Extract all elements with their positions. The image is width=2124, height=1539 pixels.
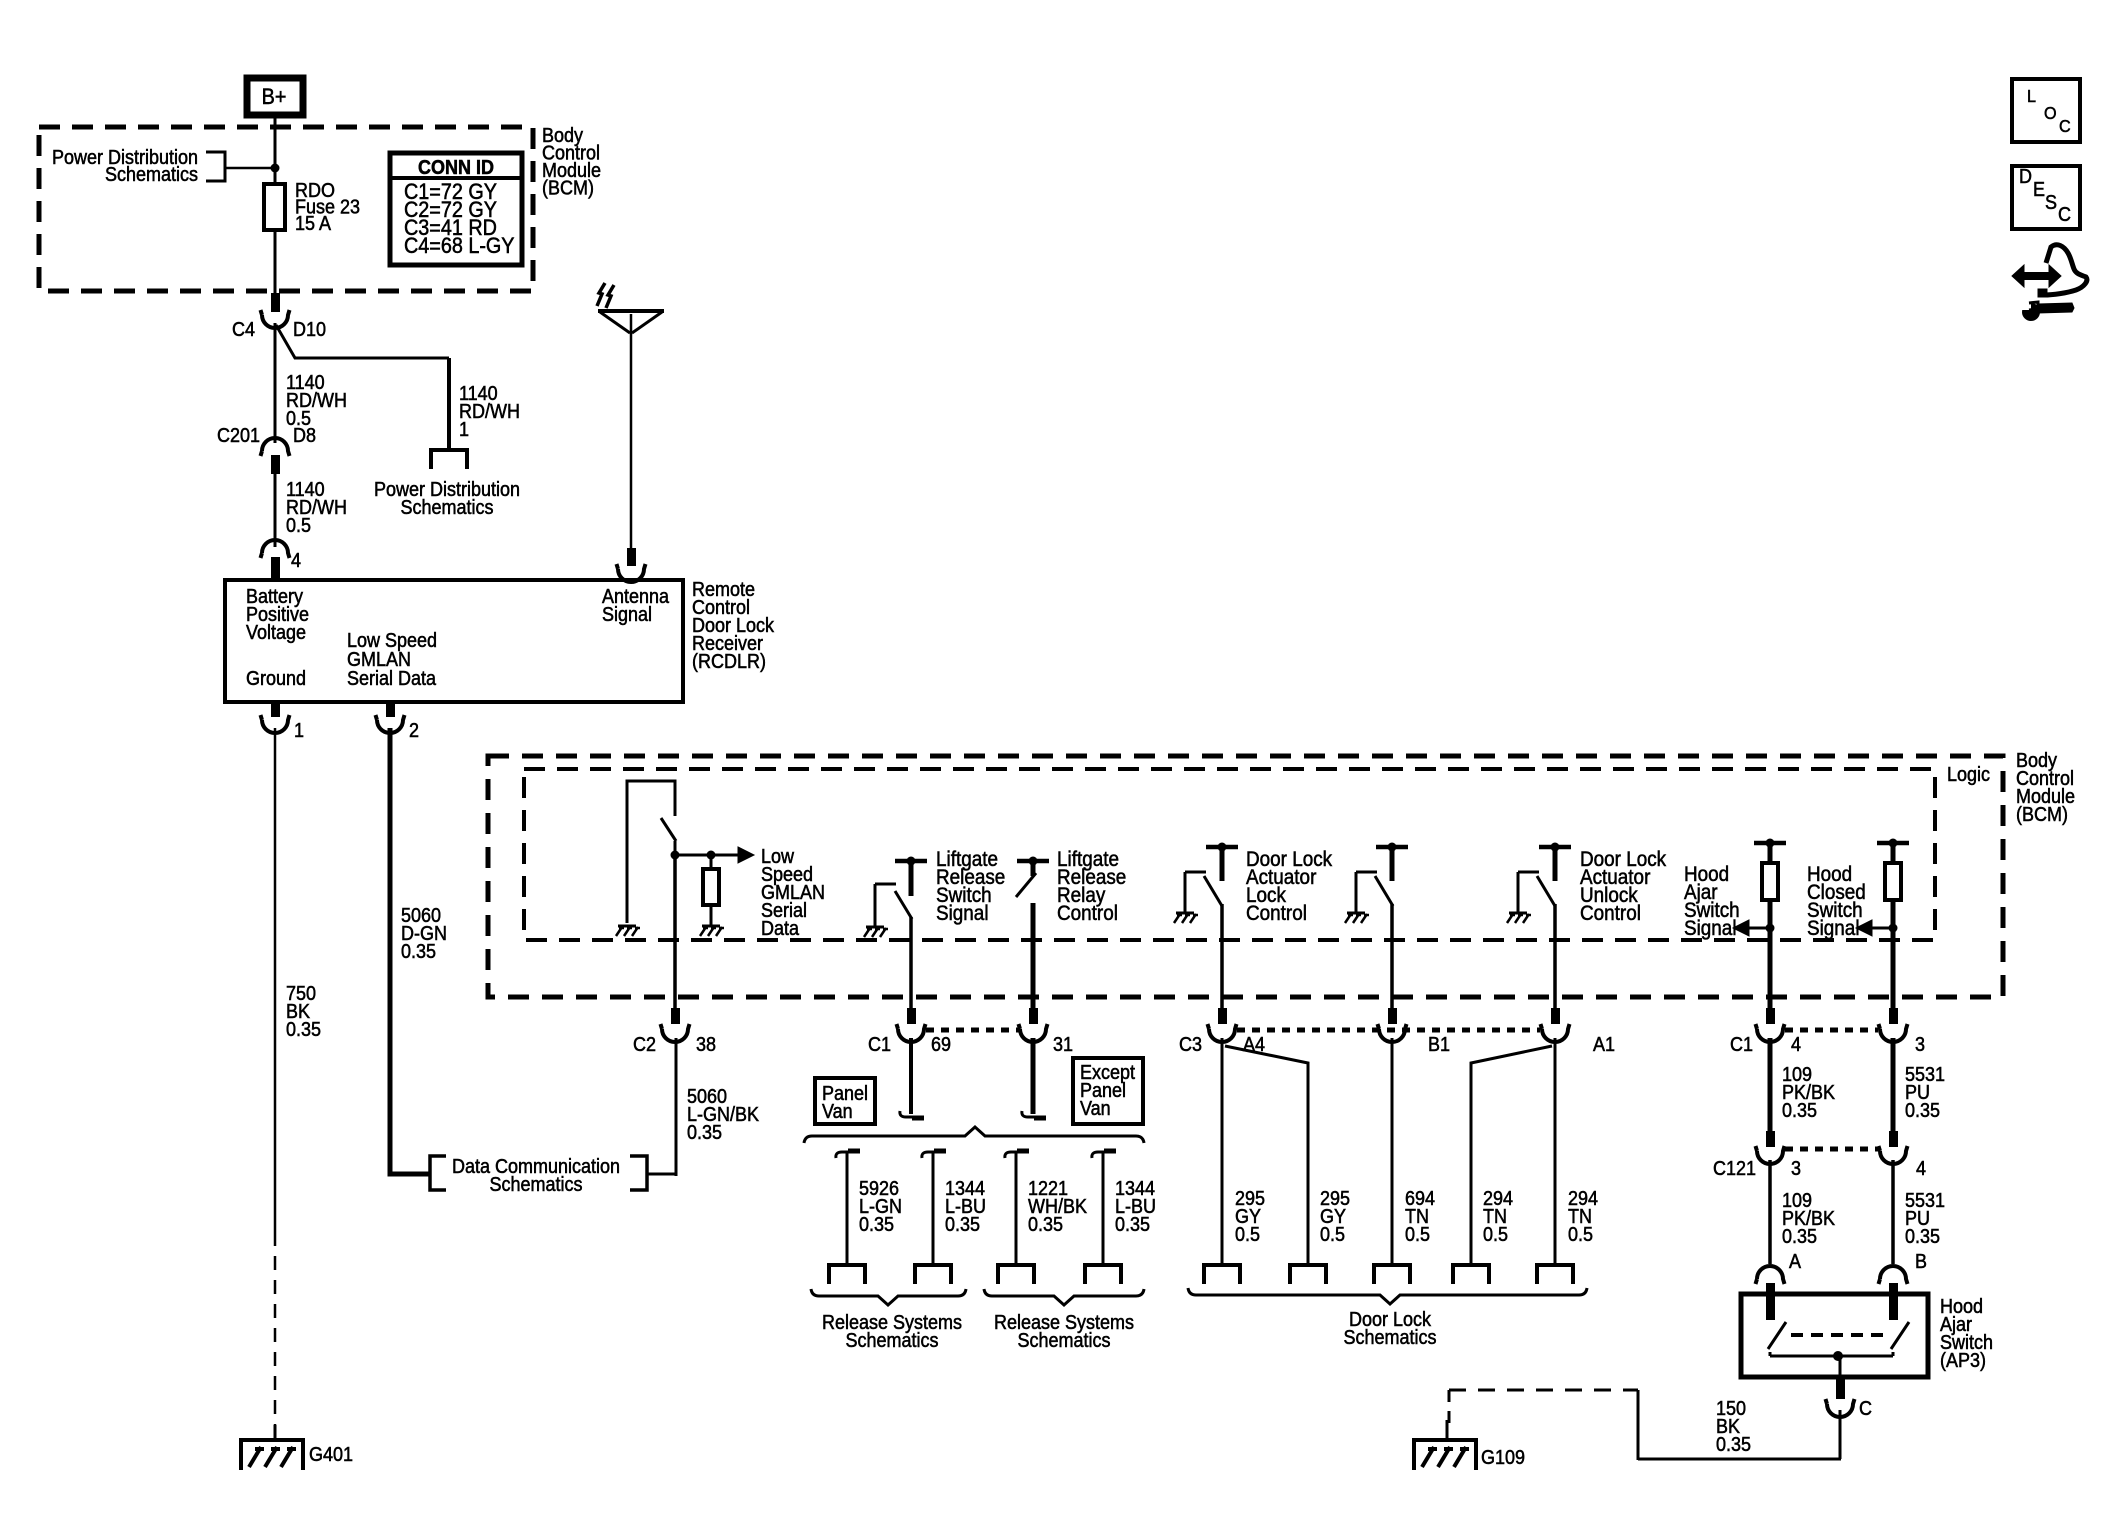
wire 5531 PU 0.35 (upper) [1891, 1038, 1896, 1134]
wire 1221 WH/BK 0.35 [1015, 1153, 1018, 1265]
svg-text:31: 31 [1053, 1034, 1073, 1056]
wire 5060 D-GN 0.35 (pin 2 to data bracket) [390, 728, 429, 1174]
resistor hood closed pull-up [1877, 841, 1909, 846]
junction node on B+ feed [271, 164, 280, 173]
antenna radio waves [597, 283, 605, 306]
arrow hood closed switch signal [1863, 927, 1893, 930]
svg-text:69: 69 [931, 1034, 951, 1056]
svg-text:Schematics: Schematics [1018, 1330, 1111, 1352]
connector C3 pin A4 [1218, 1008, 1227, 1024]
terminal box door wire 3 [1374, 1265, 1410, 1284]
terminal box release wire 4 [1085, 1265, 1121, 1284]
svg-text:C: C [1859, 1398, 1872, 1420]
wire C2-38 drop [673, 855, 677, 1010]
svg-text:Voltage: Voltage [246, 622, 306, 644]
terminal box release wire 2 [915, 1265, 951, 1284]
node hood ajar tap [1766, 924, 1775, 933]
wire 1140 RD/WH 0.5 (C201 to RCDLR) [274, 474, 277, 547]
wire liftgate release switch signal drop [909, 917, 913, 1010]
connector C2 pin 38 [671, 1008, 680, 1024]
svg-text:Schematics: Schematics [846, 1330, 939, 1352]
svg-text:4: 4 [291, 550, 301, 572]
svg-text:0.35: 0.35 [1028, 1214, 1063, 1236]
svg-text:0.35: 0.35 [286, 1019, 321, 1041]
svg-text:0.35: 0.35 [1905, 1226, 1940, 1248]
box Panel Van [815, 1078, 875, 1124]
svg-text:Signal: Signal [936, 902, 989, 925]
reference Data Communication Schematics [430, 1156, 446, 1190]
connector RCDLR pin 1 [271, 702, 280, 717]
wire 1140 RD/WH 0.5 (C4 to C201) [274, 323, 277, 443]
connector hood ajar switch pin A [1756, 1266, 1785, 1284]
antenna [598, 309, 664, 313]
svg-text:L: L [2027, 86, 2036, 106]
terminal start release wire 3 [1005, 1152, 1029, 1158]
terminal start release wire 1 [836, 1152, 860, 1158]
switch door lock actuator unlock driver [1539, 845, 1571, 850]
resistor hood ajar pull-up [1754, 841, 1786, 846]
connector C1 pin 4 (hood) [1766, 1008, 1775, 1024]
ground (GMLAN resistor) [702, 925, 720, 928]
svg-text:38: 38 [696, 1034, 716, 1056]
svg-text:CONN ID: CONN ID [418, 157, 494, 179]
switch hood ajar switch (AP3) box [1741, 1294, 1928, 1377]
svg-text:C4: C4 [232, 319, 255, 341]
svg-text:G109: G109 [1481, 1447, 1525, 1469]
switch door lock actuator lock driver [1206, 845, 1238, 850]
connector hood ajar switch pin B [1879, 1266, 1908, 1284]
wire B1 drop [1390, 904, 1394, 1010]
svg-text:0.5: 0.5 [1405, 1224, 1430, 1246]
svg-text:0.5: 0.5 [286, 515, 311, 537]
wire fuse to connector C4 [274, 230, 277, 295]
switch blade door lock [1204, 876, 1222, 906]
connector pin B1 [1388, 1008, 1397, 1024]
wire 694 TN 0.5 [1391, 1038, 1394, 1265]
ground (door lock driver) [1176, 912, 1194, 915]
svg-text:B+: B+ [262, 85, 287, 109]
dotted link connectors 4-3 [1785, 1028, 1878, 1033]
terminal box release wire 3 [998, 1265, 1034, 1284]
svg-text:0.35: 0.35 [945, 1214, 980, 1236]
connector antenna signal [627, 548, 636, 566]
svg-text:4: 4 [1791, 1034, 1801, 1056]
svg-text:0.5: 0.5 [1483, 1224, 1508, 1246]
switch blade liftgate release [895, 891, 912, 919]
wire 1344 L-BU 0.35 (except panel van) [1102, 1153, 1105, 1265]
svg-text:3: 3 [1915, 1034, 1925, 1056]
connector RCDLR pin 2 [386, 702, 395, 717]
ground G109 [1446, 1420, 1449, 1440]
svg-text:0.5: 0.5 [1235, 1224, 1260, 1246]
svg-text:O: O [2044, 103, 2057, 123]
reference Power Distribution Schematics (arrow bracket) [206, 152, 225, 181]
svg-text:Schematics: Schematics [1344, 1327, 1437, 1349]
ground (B1 driver) [1347, 912, 1365, 915]
icon navigation arrow and wrench [2022, 272, 2051, 280]
wire B+ to fuse [274, 115, 277, 184]
wire bracket to node [225, 167, 275, 170]
connector pin 3 (hood) [1889, 1008, 1898, 1024]
dotted link connectors 69-31 [926, 1028, 1019, 1033]
wire 295 GY 0.5 (lock straight) [1221, 1038, 1224, 1265]
terminal start release wire 4 [1092, 1152, 1116, 1158]
svg-text:C3: C3 [1179, 1034, 1202, 1056]
svg-text:Ground: Ground [246, 668, 306, 690]
ground (unlock driver) [1509, 912, 1527, 915]
brace release systems schematics right [984, 1289, 1144, 1305]
wire 1344 L-BU 0.35 (panel van) [932, 1153, 935, 1265]
table CONN ID [390, 153, 522, 265]
terminal box door wire 5 [1537, 1265, 1573, 1284]
svg-text:C2: C2 [633, 1034, 656, 1056]
arrow Low Speed GMLAN Serial Data [738, 847, 754, 863]
svg-text:C: C [2059, 116, 2071, 136]
svg-text:Control: Control [1057, 902, 1118, 925]
dotted link connector C121 [1785, 1147, 1878, 1152]
dashed box Logic [524, 769, 1935, 940]
svg-text:15 A: 15 A [295, 213, 331, 235]
svg-text:1: 1 [459, 419, 469, 441]
wire 294 TN 0.5 (branch) [1471, 1046, 1552, 1265]
ground G401 [274, 1425, 277, 1440]
svg-text:0.35: 0.35 [401, 941, 436, 963]
resistor GMLAN termination [710, 855, 713, 869]
module RCDLR box [225, 580, 683, 702]
svg-text:Serial Data: Serial Data [347, 668, 436, 690]
ground (GMLAN branch) [618, 925, 636, 928]
switch blade hood ajar A [1768, 1322, 1786, 1349]
wire 295 GY 0.5 (lock branch) [1225, 1046, 1308, 1265]
svg-text:0.35: 0.35 [1716, 1434, 1751, 1456]
wire 150 BK 0.35 to G109 [1839, 1410, 1842, 1459]
svg-text:Signal: Signal [1684, 917, 1737, 940]
svg-text:C121: C121 [1713, 1158, 1756, 1180]
arrow hood ajar switch signal [1740, 927, 1770, 930]
connector C4 pin D10 [271, 293, 280, 312]
wire 5926 L-GN 0.35 [846, 1153, 849, 1265]
svg-text:0.5: 0.5 [1568, 1224, 1593, 1246]
svg-text:A: A [1789, 1251, 1801, 1273]
switch door lock driver B1 [1376, 845, 1408, 850]
svg-text:Van: Van [1080, 1098, 1111, 1120]
switch blade hood ajar B [1891, 1322, 1909, 1349]
svg-text:(BCM): (BCM) [542, 178, 594, 200]
node resistor tap [707, 851, 716, 860]
svg-text:C: C [2058, 204, 2071, 226]
connector pin 31 [1029, 1008, 1038, 1024]
icon LOC box [2012, 79, 2080, 142]
dashed box Body Control Module (BCM) [488, 756, 2003, 997]
wire liftgate release relay control drop [1031, 903, 1036, 1010]
svg-text:(AP3): (AP3) [1940, 1350, 1986, 1372]
svg-text:3: 3 [1791, 1158, 1801, 1180]
brace door lock schematics [1188, 1288, 1587, 1304]
icon DESC box [2012, 166, 2080, 229]
switch liftgate release relay driver [1017, 859, 1049, 864]
terminal to Power Distribution Schematics [431, 450, 467, 469]
wire unlock control drop [1553, 904, 1557, 1010]
node hood switch common junction [1833, 1351, 1843, 1361]
connector C121 pin 4 [1889, 1131, 1898, 1147]
svg-text:Signal: Signal [1807, 917, 1860, 940]
brace release systems split [804, 1127, 1144, 1143]
svg-text:0.35: 0.35 [1782, 1226, 1817, 1248]
connector hood ajar switch pin C [1836, 1377, 1845, 1399]
wire 109 PK/BK 0.35 (lower) [1768, 1160, 1772, 1264]
svg-text:C4=68 L-GY: C4=68 L-GY [404, 234, 515, 258]
svg-text:C201: C201 [217, 425, 260, 447]
wire 5060 L-GN/BK 0.35 (data bracket to C2) [647, 1173, 676, 1176]
svg-text:Control: Control [1580, 902, 1641, 925]
svg-text:Van: Van [822, 1101, 853, 1123]
svg-text:Signal: Signal [602, 604, 652, 626]
terminal end (except panel van side) [1022, 1111, 1046, 1117]
wire GMLAN serial data tap [675, 854, 741, 857]
svg-text:Schematics: Schematics [401, 497, 494, 519]
svg-text:(RCDLR): (RCDLR) [692, 651, 766, 673]
wire 5531 PU 0.35 (lower) [1891, 1160, 1895, 1264]
svg-text:G401: G401 [309, 1444, 353, 1466]
svg-text:0.35: 0.35 [1905, 1100, 1940, 1122]
svg-text:S: S [2045, 192, 2057, 214]
terminal end (panel van side) [900, 1111, 924, 1117]
svg-text:Schematics: Schematics [105, 164, 198, 186]
svg-text:D8: D8 [293, 425, 316, 447]
node hood closed tap [1889, 924, 1898, 933]
connector RCDLR pin 4 [261, 540, 290, 558]
svg-text:0.35: 0.35 [1782, 1100, 1817, 1122]
svg-text:0.35: 0.35 [859, 1214, 894, 1236]
terminal box door wire 1 [1204, 1265, 1240, 1284]
brace release systems schematics left [811, 1289, 966, 1305]
svg-text:4: 4 [1916, 1158, 1926, 1180]
wire 69 stub to terminal [909, 1038, 913, 1114]
connector pin A1 [1551, 1008, 1560, 1024]
switch blade B1 [1375, 876, 1393, 906]
terminal box release wire 1 [829, 1265, 865, 1284]
connector C121 pin 3 [1766, 1131, 1775, 1147]
ground (liftgate release switch) [866, 926, 884, 929]
svg-text:0.35: 0.35 [687, 1122, 722, 1144]
mechanical link (dashed) [1791, 1333, 1885, 1337]
terminal start release wire 2 [922, 1152, 946, 1158]
svg-text:E: E [2033, 179, 2045, 201]
svg-text:(BCM): (BCM) [2016, 804, 2068, 826]
svg-text:1: 1 [294, 720, 304, 742]
switch liftgate release switch sense [895, 859, 927, 864]
dotted link connectors A4-B1-A1 [1237, 1028, 1540, 1033]
svg-text:D: D [2019, 166, 2032, 188]
svg-text:Control: Control [1246, 902, 1307, 925]
svg-text:Data: Data [761, 918, 799, 940]
terminal box door wire 2 [1290, 1265, 1326, 1284]
wire GMLAN driver pull-up branch [627, 781, 675, 923]
svg-text:0.5: 0.5 [1320, 1224, 1345, 1246]
fuse RDO Fuse 23 15 A [264, 184, 285, 230]
wire door lock control drop [1220, 904, 1224, 1010]
wire 109 PK/BK 0.35 (upper) [1768, 1038, 1773, 1134]
connector C201 pin D8 [261, 438, 290, 456]
svg-text:D10: D10 [293, 319, 326, 341]
svg-text:2: 2 [409, 720, 419, 742]
svg-text:C1: C1 [1730, 1034, 1753, 1056]
switch blade unlock [1537, 876, 1555, 906]
power symbol B+ [247, 78, 303, 115]
box Except Panel Van [1073, 1058, 1143, 1124]
svg-text:C1: C1 [868, 1034, 891, 1056]
wire hood switch common [1769, 1352, 1772, 1356]
node GMLAN output junction [671, 851, 680, 860]
wire 1140 RD/WH 1 branch to power distribution [276, 325, 449, 358]
wire 750 BK 0.35 to G401 [274, 728, 277, 1232]
terminal box door wire 4 [1453, 1265, 1489, 1284]
connector C1 pin 69 [907, 1008, 916, 1024]
dashed box BCM power-distribution section [39, 127, 533, 291]
svg-text:Schematics: Schematics [490, 1174, 583, 1196]
svg-text:B1: B1 [1428, 1034, 1450, 1056]
wire 294 TN 0.5 (straight) [1554, 1038, 1557, 1265]
svg-text:0.35: 0.35 [1115, 1214, 1150, 1236]
svg-text:A1: A1 [1593, 1034, 1615, 1056]
switch GMLAN driver [661, 818, 676, 841]
wire 31 stub to terminal [1031, 1038, 1036, 1114]
svg-text:Logic: Logic [1947, 764, 1990, 786]
svg-text:B: B [1915, 1251, 1927, 1273]
